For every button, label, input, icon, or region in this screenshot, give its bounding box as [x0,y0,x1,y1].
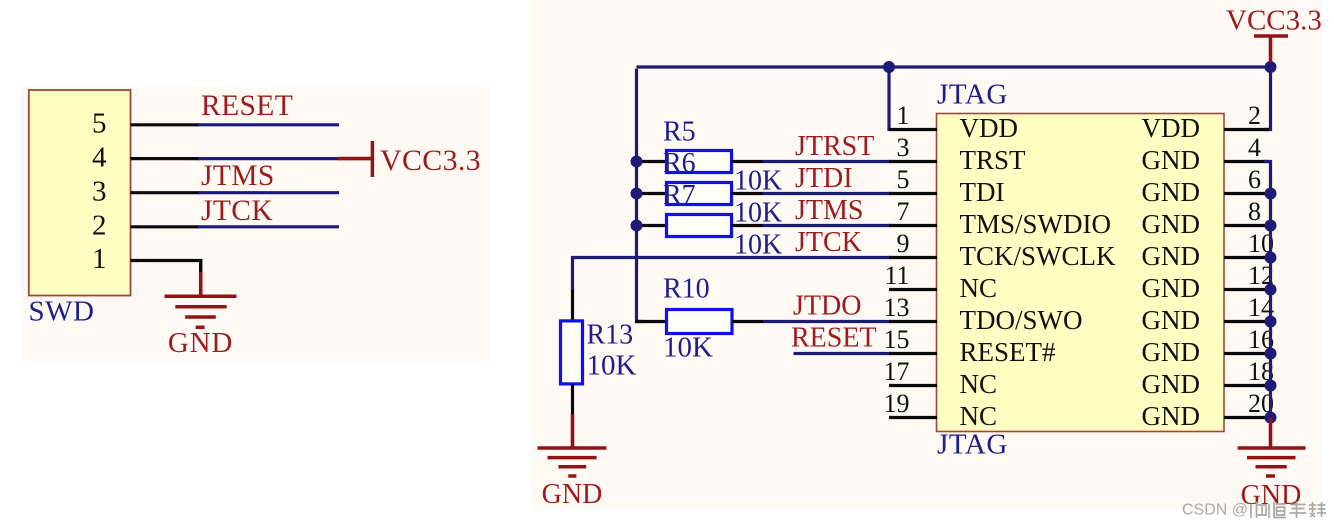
svg-text:2: 2 [92,210,107,242]
pin 20 stub [1224,416,1269,419]
svg-text:6: 6 [1248,165,1261,194]
svg-text:GND: GND [1142,369,1201,399]
svg-text:R10: R10 [663,274,710,305]
wire net JTDO [763,320,891,323]
junction dot pin8 [1265,220,1277,232]
resistor R10 right pin [732,320,764,323]
pin 19 stub [889,416,937,419]
svg-text:NC: NC [960,369,998,399]
junction dot pin12 [1265,284,1277,296]
ground symbol mid: bar3 [558,465,586,469]
ground stem below R13 [571,414,575,448]
wire net RESET (pin5) [198,123,339,126]
junction dot pin14 [1265,316,1277,328]
svg-text:VCC3.3: VCC3.3 [1226,5,1322,37]
connector JTAG body [937,114,1225,432]
wire net JTMS (pin3) [198,191,339,194]
junction dot pin20 [1265,412,1277,424]
junction dot R5 row [631,156,643,168]
svg-text:TDI: TDI [960,177,1005,207]
wire net RESET right [794,352,892,355]
resistor R5 left pin [635,160,667,163]
pin 4 stub [1224,160,1269,163]
svg-text:10K: 10K [734,229,782,260]
junction dot at VCC drop [1265,61,1277,73]
svg-text:GND: GND [168,327,233,359]
svg-text:VCC3.3: VCC3.3 [380,144,481,177]
ground stem left [199,272,203,296]
junction dot at pin1 branch [883,61,895,73]
resistor R7 body [667,215,732,237]
svg-text:1: 1 [897,101,910,130]
resistor R6 left pin [635,192,667,195]
svg-text:8: 8 [1248,197,1261,226]
svg-text:4: 4 [1248,133,1261,162]
ground symbol left: bar2 [175,305,226,309]
ground bus vertical wire right [1264,162,1271,418]
resistor R7 right pin [732,224,764,227]
ground symbol mid: bar1 [538,446,607,450]
pin 1 stub [889,128,937,131]
svg-text:RESET#: RESET# [960,337,1057,367]
SWD pin 1 stub [131,259,203,262]
pin 17 stub [889,384,937,387]
pin1 branch vertical wire [887,67,890,131]
svg-text:GND: GND [542,479,603,510]
junction dot pin6 [1265,188,1277,200]
svg-text:R7: R7 [663,180,696,211]
resistor R13 top pin [571,290,574,322]
power bar VCC3.3 right [1254,34,1288,38]
power stem VCC left [338,157,372,161]
svg-text:JTRST: JTRST [795,131,874,162]
svg-text:GND: GND [1142,241,1201,271]
pin 15 stub [889,352,937,355]
ground symbol left: bar3 [185,315,216,319]
resistor R7 left pin [635,224,667,227]
svg-text:VDD: VDD [960,113,1019,143]
wire net JTCK (pin2) [198,225,339,228]
right schematic sheet background [531,0,1322,510]
ground stem right [1269,418,1273,449]
wire pin1 to ground vertical [199,259,202,273]
svg-text:JTAG: JTAG [937,79,1008,111]
pin 10 stub [1224,256,1269,259]
wire to VCC (pin4) [198,157,339,160]
svg-text:NC: NC [960,401,998,431]
resistor R5 right pin [732,160,764,163]
wire net JTRST [763,160,892,163]
svg-text:TDO/SWO: TDO/SWO [960,305,1083,335]
watermark glyph 4 [1309,502,1326,517]
ground symbol mid: bar2 [548,456,597,460]
pin 18 stub [1224,384,1269,387]
SWD pin 4 stub [131,157,200,160]
wire net JTMS right [763,224,892,227]
svg-text:9: 9 [897,229,910,258]
pin 13 stub [889,320,937,323]
svg-text:GND: GND [1142,177,1201,207]
resistor R10 body [667,310,733,334]
svg-text:JTMS: JTMS [795,195,863,226]
svg-text:3: 3 [92,175,107,207]
resistor R6 right pin [732,192,764,195]
svg-text:17: 17 [884,357,910,386]
svg-text:GND: GND [1142,209,1201,239]
watermark glyph 3 [1290,502,1307,519]
svg-text:15: 15 [884,325,910,354]
svg-text:RESET: RESET [201,90,293,122]
svg-text:10K: 10K [734,197,782,228]
watermark glyph 2 [1269,502,1286,519]
junction dot pin16 [1265,348,1277,360]
pin 16 stub [1224,352,1269,355]
pin 7 stub [889,224,937,227]
pin 8 stub [1224,224,1269,227]
wire net JTDI [763,192,892,195]
svg-text:JTAG: JTAG [937,429,1008,461]
resistor R10 left pin [635,320,667,323]
svg-text:10K: 10K [734,165,782,196]
ground symbol right: bar3 [1256,465,1287,469]
resistor R13 body [561,321,583,384]
left schematic sheet background [22,87,490,361]
svg-text:CSDN @: CSDN @ [1182,502,1248,519]
svg-text:GND: GND [1142,145,1201,175]
wire net JTCK right [573,258,892,292]
svg-text:13: 13 [884,293,910,322]
pin 12 stub [1224,288,1269,291]
svg-text:2: 2 [1248,101,1261,130]
ground symbol right: bar4 [1266,474,1275,478]
svg-text:1: 1 [92,243,107,275]
svg-text:GND: GND [1142,305,1201,335]
svg-text:19: 19 [884,389,910,418]
watermark glyph 1 [1251,502,1266,519]
resistor R13 bottom pin [571,384,574,416]
power bar VCC left [371,141,375,177]
svg-text:TMS/SWDIO: TMS/SWDIO [960,209,1112,239]
SWD pin 3 stub [131,191,200,194]
svg-text:3: 3 [897,133,910,162]
pin 5 stub [889,192,937,195]
wire VCC to pin2 [1264,66,1271,130]
svg-text:10K: 10K [663,332,713,364]
svg-text:JTDO: JTDO [793,291,861,322]
svg-text:TRST: TRST [960,145,1027,175]
SWD pin 2 stub [131,225,200,228]
pin 14 stub [1224,320,1269,323]
junction dot pin10 [1265,252,1277,264]
ground symbol mid: bar4 [568,474,576,478]
pullup bus vertical wire [637,69,646,322]
svg-text:GND: GND [1142,273,1201,303]
svg-text:10K: 10K [587,350,637,382]
svg-text:R6: R6 [663,148,696,179]
ground symbol right: bar2 [1247,456,1296,460]
junction dot pin18 [1265,380,1277,392]
SWD pin 5 stub [131,123,200,126]
svg-text:JTCK: JTCK [201,195,273,227]
resistor R5 body [667,151,732,173]
pin 6 stub [1224,192,1269,195]
resistor R6 body [667,183,732,205]
junction dot R6 row [631,188,643,200]
connector SWD body [29,90,131,296]
svg-text:TCK/SWCLK: TCK/SWCLK [960,241,1117,271]
svg-text:JTCK: JTCK [795,227,862,258]
power stem VCC3.3 right [1269,36,1273,62]
svg-text:R5: R5 [663,117,696,148]
pin 11 stub [889,288,937,291]
svg-text:VDD: VDD [1142,113,1201,143]
ground symbol left: bar4 [196,326,205,330]
svg-text:SWD: SWD [29,296,95,328]
svg-text:7: 7 [897,197,910,226]
svg-text:5: 5 [897,165,910,194]
svg-text:R13: R13 [587,320,634,351]
ground symbol right: bar1 [1238,446,1306,450]
pin 9 stub [889,256,937,259]
svg-text:11: 11 [884,261,909,290]
svg-text:4: 4 [92,141,107,173]
svg-text:NC: NC [960,273,998,303]
svg-text:GND: GND [1241,480,1302,511]
svg-text:JTMS: JTMS [201,160,275,192]
svg-text:GND: GND [1142,401,1201,431]
svg-text:JTDI: JTDI [795,163,853,194]
top VCC rail wire [637,65,1271,68]
svg-text:5: 5 [92,108,107,140]
junction dot R7 row [631,220,643,232]
ground symbol left: bar1 [165,295,237,299]
pin 2 stub [1224,128,1269,131]
svg-text:RESET: RESET [791,323,877,354]
pin 3 stub [889,160,937,163]
svg-text:GND: GND [1142,337,1201,367]
